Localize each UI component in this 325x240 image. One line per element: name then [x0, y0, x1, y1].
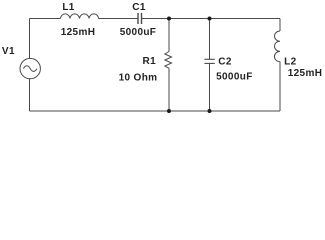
svg-text:125mH: 125mH — [61, 27, 96, 38]
svg-text:5000uF: 5000uF — [216, 72, 253, 83]
svg-text:5000uF: 5000uF — [120, 27, 157, 38]
svg-text:C2: C2 — [218, 57, 232, 68]
svg-text:R1: R1 — [143, 56, 157, 67]
svg-text:C1: C1 — [132, 2, 146, 13]
svg-text:V1: V1 — [2, 46, 15, 57]
svg-text:L1: L1 — [62, 2, 74, 13]
svg-text:125mH: 125mH — [288, 68, 323, 79]
svg-text:10 Ohm: 10 Ohm — [119, 72, 158, 83]
svg-text:L2: L2 — [284, 56, 296, 67]
